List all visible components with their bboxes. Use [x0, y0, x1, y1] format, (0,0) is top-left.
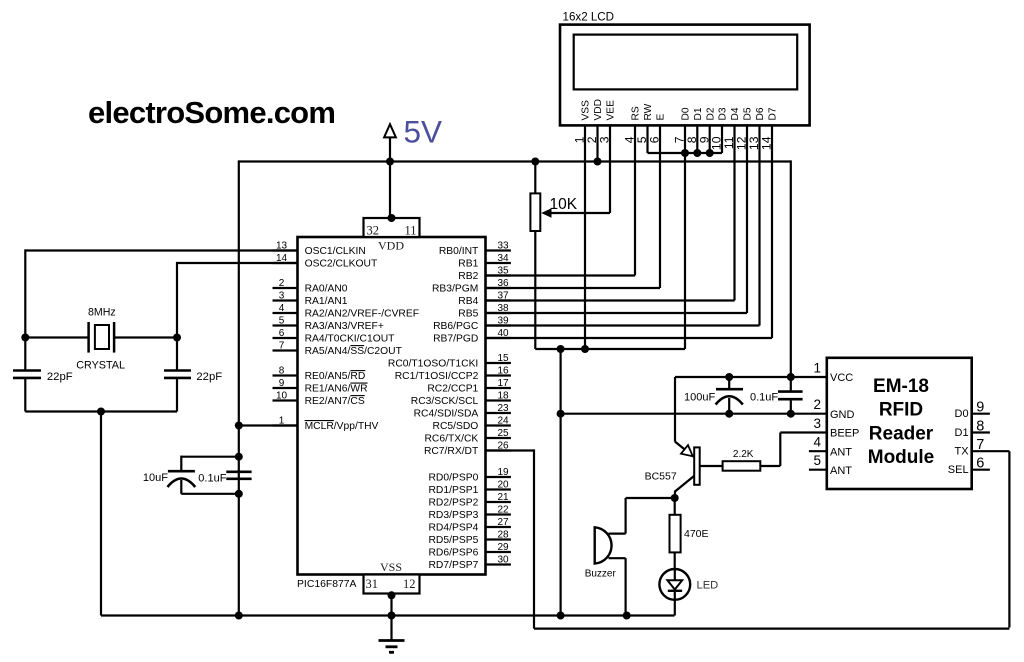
- svg-text:RB2: RB2: [458, 271, 478, 282]
- pin 21 stub (RD2/PSP2): [486, 501, 511, 503]
- capacitor C4 0.1uF: [226, 470, 251, 473]
- junction rail/MCLR ladder: [235, 612, 243, 620]
- EM-18 D1 stub: [972, 431, 990, 433]
- svg-text:12: 12: [403, 577, 416, 591]
- svg-text:24: 24: [497, 416, 509, 427]
- LED D1: [659, 569, 690, 600]
- wire TX riser: [1008, 451, 1010, 627]
- svg-text:0.1uF: 0.1uF: [750, 392, 778, 404]
- svg-text:RD7/PSP7: RD7/PSP7: [429, 560, 479, 571]
- svg-text:RD3/PSP3: RD3/PSP3: [429, 510, 479, 521]
- svg-text:RA4/T0CKI/C1OUT: RA4/T0CKI/C1OUT: [305, 334, 396, 345]
- EM-18 TX wire: [972, 450, 1010, 452]
- potentiometer RV1 10K body: [530, 193, 540, 231]
- junction collector node: [671, 494, 679, 502]
- wire caps top: [181, 456, 239, 458]
- junction crystal right: [173, 334, 181, 342]
- svg-text:22pF: 22pF: [47, 371, 73, 383]
- svg-text:RB4: RB4: [458, 296, 478, 307]
- junction D0 tie: [681, 149, 689, 157]
- svg-text:VCC: VCC: [830, 372, 853, 384]
- svg-text:RA2/AN2/VREF-/CVREF: RA2/AN2/VREF-/CVREF: [305, 309, 419, 320]
- svg-text:D1: D1: [693, 107, 704, 120]
- svg-text:GND: GND: [830, 409, 855, 421]
- pin 33 stub (RB0/INT): [486, 249, 511, 251]
- svg-text:19: 19: [497, 467, 509, 478]
- wire RW/D0-D3 tie: [648, 152, 723, 154]
- pin 26 stub (RC7/RX/DT): [486, 449, 511, 451]
- wire R2 to LED: [674, 552, 676, 569]
- svg-text:RD0/PSP0: RD0/PSP0: [429, 473, 479, 484]
- LCD screen: [574, 35, 798, 90]
- wire pot bottom to ground link: [534, 231, 536, 349]
- svg-text:RFID: RFID: [879, 400, 923, 421]
- junction D1 tie: [693, 149, 701, 157]
- junction 100uF top: [725, 373, 733, 381]
- svg-text:Reader: Reader: [869, 423, 934, 444]
- svg-text:22: 22: [497, 505, 509, 516]
- pin 25 stub (RC6/TX/CK): [486, 437, 511, 439]
- svg-text:17: 17: [497, 378, 509, 389]
- svg-text:34: 34: [497, 253, 509, 264]
- svg-text:EM-18: EM-18: [873, 376, 929, 397]
- junction below VSS box: [388, 591, 396, 599]
- svg-text:ANT: ANT: [830, 446, 852, 458]
- wire C1 bottom: [24, 379, 26, 412]
- wire LCD pin 1 (VSS) vertical: [584, 125, 586, 349]
- junction 100uF bottom: [725, 410, 733, 418]
- svg-text:RC6/TX/CK: RC6/TX/CK: [425, 434, 479, 445]
- svg-text:1: 1: [813, 361, 821, 376]
- capacitor C3 10uF: [168, 470, 195, 473]
- resistor R1 2.2K: [723, 461, 761, 471]
- wire R1 to BEEP: [760, 465, 780, 467]
- pin 9 stub (RE1/AN6/WR): [273, 387, 298, 389]
- svg-text:VSS: VSS: [380, 560, 402, 574]
- buzzer BZ1: [595, 527, 612, 563]
- wire LCD pin 11 (D4) vertical: [733, 125, 735, 300]
- wire MCLR (pin1): [239, 424, 298, 426]
- svg-text:15: 15: [497, 353, 509, 364]
- svg-text:RA1/AN1: RA1/AN1: [305, 296, 348, 307]
- EM-18 ANT stub 5: [809, 469, 827, 471]
- wire LCD pin 6 (E) vertical: [659, 125, 661, 288]
- svg-text:RW: RW: [643, 103, 654, 120]
- junction crystal ground: [97, 408, 105, 416]
- collector diagonal: [675, 476, 694, 492]
- svg-text:100uF: 100uF: [684, 392, 715, 404]
- svg-text:25: 25: [497, 428, 509, 439]
- svg-text:VSS: VSS: [581, 100, 592, 121]
- LCD module 16x2 outline: [560, 25, 810, 126]
- wire RX bottom run: [534, 627, 1009, 629]
- svg-text:electroSome.com: electroSome.com: [88, 95, 335, 130]
- pin 34 stub (RB1): [486, 262, 511, 264]
- wire VCC run: [675, 376, 827, 378]
- pin 18 stub (RC3/SCK/SCL): [486, 399, 511, 401]
- pin 2 stub (RA0/AN0): [273, 287, 298, 289]
- wire buzzer top riser: [624, 498, 626, 534]
- capacitor C2 22pF right: [164, 369, 191, 372]
- svg-text:RC3/SCK/SCL: RC3/SCK/SCL: [411, 396, 479, 407]
- wire pot top from 5V rail: [534, 162, 536, 194]
- svg-text:PIC16F877A: PIC16F877A: [297, 579, 357, 590]
- wire 5V rail left drop to MCLR ladder: [238, 160, 240, 615]
- wire RB3 (pin36) to LCD E: [486, 287, 661, 289]
- svg-text:2: 2: [279, 278, 285, 289]
- junction crystal left: [21, 334, 29, 342]
- svg-text:D0: D0: [681, 107, 692, 120]
- svg-text:D4: D4: [730, 107, 741, 120]
- svg-text:RS: RS: [631, 106, 642, 120]
- pin 4 stub (RA2/AN2/VREF-/CVREF): [273, 312, 298, 314]
- svg-text:31: 31: [366, 577, 379, 591]
- svg-text:RA3/AN3/VREF+: RA3/AN3/VREF+: [305, 321, 384, 332]
- svg-text:29: 29: [497, 542, 509, 553]
- EM-18 SEL stub: [972, 469, 990, 471]
- pin 27 stub (RD4/PSP4): [486, 526, 511, 528]
- svg-text:21: 21: [497, 492, 509, 503]
- power 5V symbol: [389, 126, 391, 218]
- wire collector to R2: [674, 498, 676, 515]
- wire 10uF top stub: [180, 456, 182, 470]
- pin 22 stub (RD3/PSP3): [486, 513, 511, 515]
- wire ground rail: [101, 614, 675, 616]
- svg-text:4: 4: [279, 303, 285, 314]
- wire RB2 (pin35) to LCD RS: [486, 274, 636, 276]
- svg-text:2.2K: 2.2K: [733, 449, 754, 460]
- svg-text:RC2/CCP1: RC2/CCP1: [427, 384, 478, 395]
- pin 16 stub (RC1/T1OSI/CCP2): [486, 374, 511, 376]
- pin 14 stub (OSC2/CLKOUT): [273, 262, 298, 264]
- VDD pin box (pins 32,11): [364, 218, 420, 237]
- wire ground drop x560: [559, 349, 561, 616]
- svg-text:7: 7: [279, 341, 285, 352]
- VSS pin box (pins 31,12): [364, 575, 420, 594]
- wire VSS box to ground rail: [390, 594, 392, 616]
- svg-text:RA5/AN4/SS/C2OUT: RA5/AN4/SS/C2OUT: [305, 346, 403, 357]
- wire buzzer bottom drop: [624, 558, 626, 615]
- svg-text:10K: 10K: [550, 196, 578, 213]
- svg-text:8: 8: [279, 366, 285, 377]
- junction pot/5V rail: [531, 158, 539, 166]
- svg-text:11: 11: [404, 224, 416, 238]
- svg-text:RD5/PSP5: RD5/PSP5: [429, 535, 479, 546]
- svg-text:OSC1/CLKIN: OSC1/CLKIN: [305, 246, 366, 257]
- svg-text:RC0/T1OSO/T1CKI: RC0/T1OSO/T1CKI: [388, 359, 478, 370]
- wire RB7 (pin40) to LCD D7: [486, 337, 773, 339]
- svg-text:RB1: RB1: [458, 259, 478, 270]
- svg-text:E: E: [656, 114, 667, 121]
- pin 5 stub (RA3/AN3/VREF+): [273, 324, 298, 326]
- pin 3 stub (RA1/AN1): [273, 299, 298, 301]
- svg-text:BC557: BC557: [645, 470, 677, 482]
- junction caps top: [235, 453, 243, 461]
- wire LCD pin 3 (VEE) vertical: [609, 125, 611, 213]
- svg-text:RE0/AN5/RD: RE0/AN5/RD: [305, 371, 366, 382]
- pin 40 stub (RB7/PGD): [486, 337, 511, 339]
- wire ground link: [535, 348, 685, 350]
- junction 0.1uF bottom: [787, 410, 795, 418]
- overline RD: [350, 370, 365, 372]
- svg-text:MCLR/Vpp/THV: MCLR/Vpp/THV: [305, 421, 379, 432]
- svg-text:RC1/T1OSI/CCP2: RC1/T1OSI/CCP2: [395, 371, 479, 382]
- wire LCD pin 10 (D3) vertical: [721, 125, 723, 153]
- junction caps bottom: [235, 490, 243, 498]
- svg-text:LED: LED: [697, 580, 719, 592]
- svg-text:RE1/AN6/WR: RE1/AN6/WR: [305, 384, 368, 395]
- svg-text:VDD: VDD: [378, 239, 404, 253]
- junction ground link / drop: [557, 345, 565, 353]
- wire 10uF bottom stub: [180, 480, 182, 494]
- capacitor C6 0.1uF: [790, 377, 792, 391]
- EM-18 ANT stub 4: [809, 450, 827, 452]
- svg-text:6: 6: [279, 328, 285, 339]
- svg-text:5V: 5V: [404, 114, 443, 150]
- junction rail/x560 drop: [557, 612, 565, 620]
- svg-text:30: 30: [497, 555, 509, 566]
- svg-text:RD6/PSP6: RD6/PSP6: [429, 548, 479, 559]
- svg-text:5: 5: [813, 453, 821, 468]
- svg-text:28: 28: [497, 530, 509, 541]
- svg-text:Module: Module: [868, 447, 935, 468]
- junction 0.1uF top / 5V drop: [787, 373, 795, 381]
- IC U1 PIC16F877A body: [298, 237, 486, 575]
- pin 17 stub (RC2/CCP1): [486, 387, 511, 389]
- wire crystal ground drop: [100, 412, 102, 616]
- pin 23 stub (RC4/SDI/SDA): [486, 412, 511, 414]
- svg-text:32: 32: [367, 224, 380, 238]
- svg-text:RB3/PGM: RB3/PGM: [432, 284, 478, 295]
- svg-text:0.1uF: 0.1uF: [198, 473, 226, 485]
- svg-text:10uF: 10uF: [143, 472, 168, 484]
- svg-text:D2: D2: [705, 107, 716, 120]
- pin 10 stub (RE2/AN7/CS): [273, 399, 298, 401]
- svg-text:RB7/PGD: RB7/PGD: [433, 334, 478, 345]
- svg-text:D1: D1: [955, 427, 969, 439]
- EM-18 D0 stub: [972, 413, 990, 415]
- wire caps bottom: [181, 493, 239, 495]
- wire LCD pin 13 (D6) vertical: [758, 125, 760, 325]
- junction rail/VSS: [388, 612, 396, 620]
- wire RB6 (pin39) to LCD D6: [486, 324, 760, 326]
- ground symbol: [390, 616, 392, 641]
- svg-text:RB5: RB5: [458, 309, 478, 320]
- svg-text:22pF: 22pF: [196, 371, 222, 383]
- svg-text:RB6/PGC: RB6/PGC: [433, 321, 479, 332]
- wire LCD pin 9 (D2) vertical: [709, 125, 711, 153]
- potentiometer wiper arrow: [548, 212, 610, 214]
- svg-text:10: 10: [276, 391, 288, 402]
- pin 6 stub (RA4/T0CKI/C1OUT): [273, 337, 298, 339]
- svg-text:OSC2/CLKOUT: OSC2/CLKOUT: [305, 259, 378, 270]
- svg-text:3: 3: [279, 291, 285, 302]
- svg-text:Buzzer: Buzzer: [585, 569, 617, 580]
- svg-text:D7: D7: [768, 107, 779, 120]
- emitter diagonal: [675, 442, 694, 457]
- module EM-18 box: [827, 358, 972, 489]
- wire base to resistor: [700, 465, 723, 467]
- pin 29 stub (RD6/PSP6): [486, 551, 511, 553]
- wire LCD pin 14 (D7) vertical: [771, 125, 773, 338]
- wire buzzer top stub: [609, 532, 626, 534]
- svg-text:TX: TX: [955, 446, 970, 458]
- svg-text:D0: D0: [955, 408, 969, 420]
- wire LCD pin 8 (D1) vertical: [696, 125, 698, 153]
- wire RB4 (pin37) to LCD D4: [486, 299, 735, 301]
- svg-text:33: 33: [497, 241, 509, 252]
- base bar: [694, 447, 700, 484]
- pin 35 stub (RB2): [486, 274, 511, 276]
- junction GND/x560: [557, 410, 565, 418]
- svg-text:RE2/AN7/CS: RE2/AN7/CS: [305, 396, 365, 407]
- svg-text:RC4/SDI/SDA: RC4/SDI/SDA: [414, 409, 479, 420]
- overline WR: [350, 382, 367, 384]
- wire RC7 (pin26) down: [486, 449, 535, 451]
- wire LCD pin 12 (D5) vertical: [746, 125, 748, 313]
- pin 28 stub (RD5/PSP5): [486, 538, 511, 540]
- svg-text:RD4/PSP4: RD4/PSP4: [429, 523, 479, 534]
- resistor R2 470E: [670, 515, 681, 553]
- pin 15 stub (RC0/T1OSO/T1CKI): [486, 362, 511, 364]
- svg-text:RC7/RX/DT: RC7/RX/DT: [424, 446, 479, 457]
- svg-text:9: 9: [279, 378, 285, 389]
- svg-text:RA0/AN0: RA0/AN0: [305, 284, 348, 295]
- svg-text:VDD: VDD: [593, 99, 604, 121]
- wire LCD pin 7 (D0) vertical: [684, 125, 686, 349]
- junction MCLR: [235, 422, 243, 430]
- pin 30 stub (RD7/PSP7): [486, 563, 511, 565]
- wire GND run: [561, 413, 827, 415]
- wire 5V rail: [239, 160, 791, 162]
- svg-text:D5: D5: [743, 107, 754, 120]
- svg-text:23: 23: [497, 403, 509, 414]
- pin 38 stub (RB5): [486, 312, 511, 314]
- pin 37 stub (RB4): [486, 299, 511, 301]
- wire LCD pin 4 (RS) vertical: [634, 125, 636, 275]
- svg-text:RD2/PSP2: RD2/PSP2: [429, 498, 479, 509]
- junction 5V/VDD: [386, 158, 394, 166]
- svg-text:470E: 470E: [684, 528, 709, 540]
- crystal X1 8MHz: [25, 336, 88, 338]
- svg-text:RC5/SDO: RC5/SDO: [433, 421, 479, 432]
- pin 7 stub (RA5/AN4/SS/C2OUT): [273, 349, 298, 351]
- pin 39 stub (RB6/PGC): [486, 324, 511, 326]
- svg-text:3: 3: [813, 416, 821, 431]
- svg-text:RD1/PSP1: RD1/PSP1: [429, 485, 479, 496]
- wire 5V rail right drop to EM-18 VCC: [790, 160, 792, 377]
- svg-text:RB0/INT: RB0/INT: [439, 246, 479, 257]
- junction VDD box top: [388, 214, 396, 222]
- pin 24 stub (RC5/SDO): [486, 424, 511, 426]
- svg-text:D3: D3: [718, 107, 729, 120]
- svg-text:16x2 LCD: 16x2 LCD: [563, 11, 615, 24]
- wire OSC1 (pin13) to crystal left: [25, 249, 297, 251]
- junction D2 tie: [706, 149, 714, 157]
- svg-text:5: 5: [279, 316, 285, 327]
- wire LCD pin 5 (RW) vertical: [646, 125, 648, 153]
- pin 19 stub (RD0/PSP0): [486, 476, 511, 478]
- junction ground link / LCD VSS: [581, 345, 589, 353]
- junction LCD VDD on 5V rail: [594, 158, 602, 166]
- pin 8 stub (RE0/AN5/RD): [273, 374, 298, 376]
- wire OSC2 (pin14) to crystal right: [177, 262, 298, 264]
- svg-text:2: 2: [813, 397, 821, 412]
- svg-text:20: 20: [497, 480, 509, 491]
- capacitor C1 22pF left: [13, 369, 41, 372]
- svg-text:D6: D6: [755, 107, 766, 120]
- wire RB5 (pin38) to LCD D5: [486, 312, 748, 314]
- overline CS: [350, 395, 364, 397]
- pin 13 stub (OSC1/CLKIN): [273, 249, 298, 251]
- overline MCLR: [305, 420, 334, 422]
- wire emitter riser: [674, 377, 676, 442]
- wire buzzer bottom stub: [609, 557, 626, 559]
- overline SS: [350, 345, 364, 347]
- svg-text:16: 16: [497, 366, 509, 377]
- svg-text:ANT: ANT: [830, 465, 852, 477]
- wire crystal ground bus: [25, 410, 177, 412]
- svg-text:8MHz: 8MHz: [88, 307, 116, 319]
- svg-text:CRYSTAL: CRYSTAL: [76, 359, 125, 371]
- svg-text:27: 27: [497, 517, 509, 528]
- wire buzzer top run: [626, 497, 675, 499]
- pin 1 stub (MCLR/Vpp/THV): [273, 424, 298, 426]
- svg-text:SEL: SEL: [948, 464, 969, 476]
- svg-text:BEEP: BEEP: [830, 428, 859, 440]
- svg-text:18: 18: [497, 391, 509, 402]
- wire C2 bottom: [176, 379, 178, 412]
- pin 20 stub (RD1/PSP1): [486, 488, 511, 490]
- svg-text:4: 4: [813, 435, 821, 450]
- wire LCD pin 2 (VDD) vertical: [596, 125, 598, 161]
- pin 36 stub (RB3/PGM): [486, 287, 511, 289]
- junction rail/buzzer: [623, 612, 631, 620]
- capacitor C5 100uF: [728, 377, 730, 388]
- svg-text:VEE: VEE: [606, 100, 617, 121]
